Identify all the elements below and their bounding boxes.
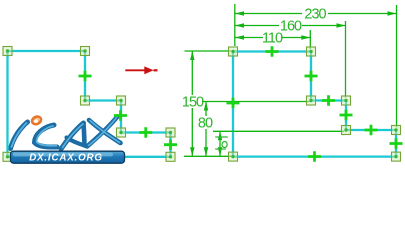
banner DX.ICAX.ORG: [11, 151, 125, 163]
extension line left vertical (x=235): [234, 4, 236, 46]
svg-text:110: 110: [262, 30, 283, 46]
svg-text:150: 150: [182, 95, 204, 111]
dimension 160: [235, 18, 346, 34]
extension line top horizontal (y=51): [185, 50, 232, 52]
svg-text:DX.ICAX.ORG: DX.ICAX.ORG: [29, 152, 103, 163]
svg-text:230: 230: [304, 6, 326, 22]
logo letter C: [35, 125, 58, 147]
extension line at step x=310: [309, 30, 311, 49]
logo letter X: [87, 117, 121, 147]
extension line right vertical (x=396.5): [396, 5, 398, 128]
red transition arrow: [125, 66, 157, 74]
dimension 150 (left overall height): [182, 51, 204, 156]
extension line at step y=101.5: [202, 101, 310, 103]
svg-text:80: 80: [198, 116, 213, 132]
dimension 230 (top overall width): [235, 6, 397, 22]
watermark logo glow: [11, 117, 122, 150]
logo orange swirl: [31, 115, 42, 125]
extension line bottom horizontal (y=156.3): [184, 155, 232, 157]
dimension 110: [235, 30, 310, 46]
midpoint grips (plus marks): [79, 46, 403, 161]
logo letter I: [11, 122, 28, 149]
dimension 40 (small, squeezed rotated text): [215, 131, 228, 156]
svg-text:160: 160: [280, 18, 302, 34]
polyline dimensioned shape (right): [233, 52, 396, 157]
logo letter A: [61, 123, 85, 149]
vertex grips (squares) of both polylines: [3, 47, 401, 162]
dimension 80: [198, 102, 213, 157]
polyline source shape (left): [8, 51, 171, 157]
extension line at step y=131.3: [213, 130, 344, 132]
extension line at step x=345.5: [345, 21, 347, 98]
